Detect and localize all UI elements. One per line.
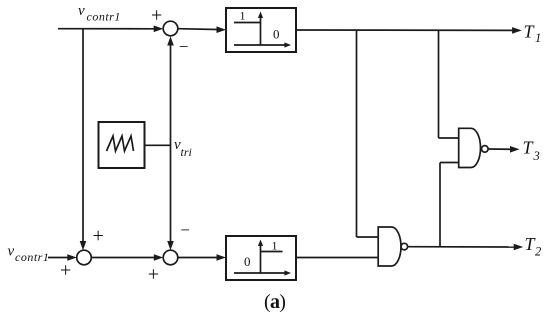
label v_contr1 (bottom) [8, 243, 50, 264]
NAND G2 output bubble [482, 146, 489, 153]
svg-text:v: v [78, 3, 85, 19]
wire: v_contr1 bottom input with arrow into summer S2 [48, 254, 77, 261]
wire: branch from G1 output up to NAND G2 bottom input [440, 163, 459, 247]
svg-text:contr1: contr1 [87, 10, 121, 24]
CMP1 vertical axis with up arrow [258, 12, 263, 46]
wire: CMP2 output to NAND G1 bottom input [296, 257, 378, 259]
CMP1 horizontal axis with right arrow [234, 42, 291, 47]
svg-text:2: 2 [535, 245, 541, 259]
triangular waveform symbol [107, 136, 134, 151]
wire: left vertical branch from v_contr1 down to summer S2 [80, 29, 87, 250]
caption (a) [264, 291, 286, 313]
wire: G2 output to T3 [488, 146, 519, 153]
svg-text:−: − [180, 221, 190, 240]
summing junction S1 (top comparator) [163, 21, 178, 36]
svg-text:contr1: contr1 [15, 250, 49, 264]
NAND G1 output bubble [401, 243, 408, 250]
comparator block CMP1 (high step box) [226, 8, 296, 52]
label T2 [525, 234, 542, 259]
svg-text:1: 1 [272, 239, 278, 253]
wire: v_contr1 top horizontal line [58, 28, 155, 30]
CMP2 high level line [261, 251, 283, 253]
NAND gate G1 [378, 227, 401, 266]
label T3 [523, 138, 540, 163]
wire: carrier block output to v_tri line [145, 144, 171, 146]
svg-text:0: 0 [273, 27, 280, 42]
label v_contr1 (top) [78, 3, 121, 24]
wire: G1 output to T2 with junction to G2 [408, 244, 524, 251]
CMP1 high level line [234, 22, 261, 24]
svg-text:0: 0 [244, 254, 251, 269]
svg-text:+: + [151, 4, 162, 26]
svg-text:+: + [60, 260, 71, 282]
arrow into summer S1 [154, 26, 164, 33]
wire: S3 output to comparator block CMP2 [178, 254, 226, 261]
svg-text:): ) [279, 291, 286, 313]
summing junction S3 (bottom comparator) [163, 250, 178, 265]
comparator block CMP2 (low step box) [226, 236, 296, 280]
svg-text:3: 3 [533, 149, 540, 163]
CMP2 vertical axis with up arrow [258, 240, 263, 274]
triangular carrier generator block [99, 122, 145, 168]
svg-text:T: T [524, 21, 536, 41]
svg-text:+: + [93, 225, 104, 247]
wire: S2 output to summer S3 [91, 254, 163, 261]
svg-text:v: v [8, 243, 15, 259]
NAND gate G2 [459, 128, 481, 167]
wire: S1 output to comparator block CMP1 [178, 26, 226, 33]
wire: CMP1 output T1 line [296, 27, 522, 34]
svg-text:tri: tri [181, 145, 192, 159]
svg-text:−: − [179, 37, 189, 56]
label T1 [524, 21, 542, 45]
wire: tap from T1 line down to NAND G1 top input [357, 30, 379, 237]
wire: v_tri vertical line with arrows into S1 and S2 [167, 36, 174, 250]
CMP2 horizontal axis with right arrow [234, 270, 291, 275]
svg-text:1: 1 [240, 9, 246, 23]
summing junction S2 [77, 250, 92, 265]
wire: tap from T1 line down to NAND G2 top input [439, 30, 459, 138]
svg-text:1: 1 [535, 31, 541, 45]
svg-text:+: + [148, 264, 159, 286]
label v_tri [174, 137, 192, 159]
